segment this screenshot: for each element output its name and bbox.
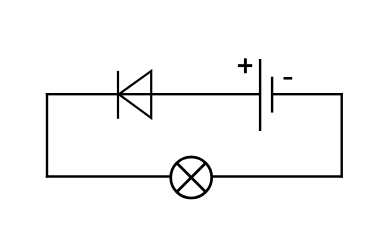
diode D1: [118, 71, 151, 119]
battery B1: [260, 59, 272, 131]
label - (battery negative): [284, 77, 293, 80]
wire top-left segment: [46, 93, 260, 95]
wire right segment: [341, 93, 343, 178]
lamp L1: [171, 157, 212, 198]
wire top-right segment: [272, 93, 343, 95]
label + (battery positive): [238, 58, 252, 73]
wire bottom-left segment: [46, 175, 171, 177]
wire left segment: [46, 93, 48, 178]
wire bottom-right segment: [212, 175, 343, 177]
